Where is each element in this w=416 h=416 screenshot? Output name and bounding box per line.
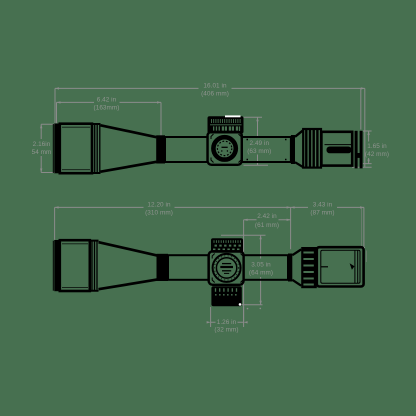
svg-text:16.01 in: 16.01 in: [203, 83, 227, 90]
svg-text:(61 mm): (61 mm): [255, 222, 279, 229]
svg-text:1.65 in: 1.65 in: [367, 143, 387, 150]
svg-text:3.43 in: 3.43 in: [313, 202, 333, 209]
svg-text:(32 mm): (32 mm): [214, 327, 238, 334]
svg-text:2.16in: 2.16in: [33, 141, 51, 148]
svg-text:(310 mm): (310 mm): [145, 210, 173, 217]
svg-text:2.49 in: 2.49 in: [250, 140, 270, 147]
svg-text:2.42 in: 2.42 in: [257, 213, 277, 220]
svg-text:(42 mm): (42 mm): [365, 151, 389, 158]
svg-text:(87 mm): (87 mm): [310, 210, 334, 217]
svg-text:6.42 in: 6.42 in: [97, 97, 117, 104]
svg-text:(163mm): (163mm): [94, 105, 120, 112]
svg-text:54 mm: 54 mm: [32, 149, 52, 156]
svg-text:12.20 in: 12.20 in: [147, 202, 171, 209]
svg-text:(406 mm): (406 mm): [201, 91, 229, 98]
svg-text:1.26 in: 1.26 in: [217, 319, 237, 326]
svg-text:3.05 in: 3.05 in: [251, 262, 271, 269]
svg-text:(63 mm): (63 mm): [247, 148, 271, 155]
svg-text:(64 mm): (64 mm): [249, 270, 273, 277]
